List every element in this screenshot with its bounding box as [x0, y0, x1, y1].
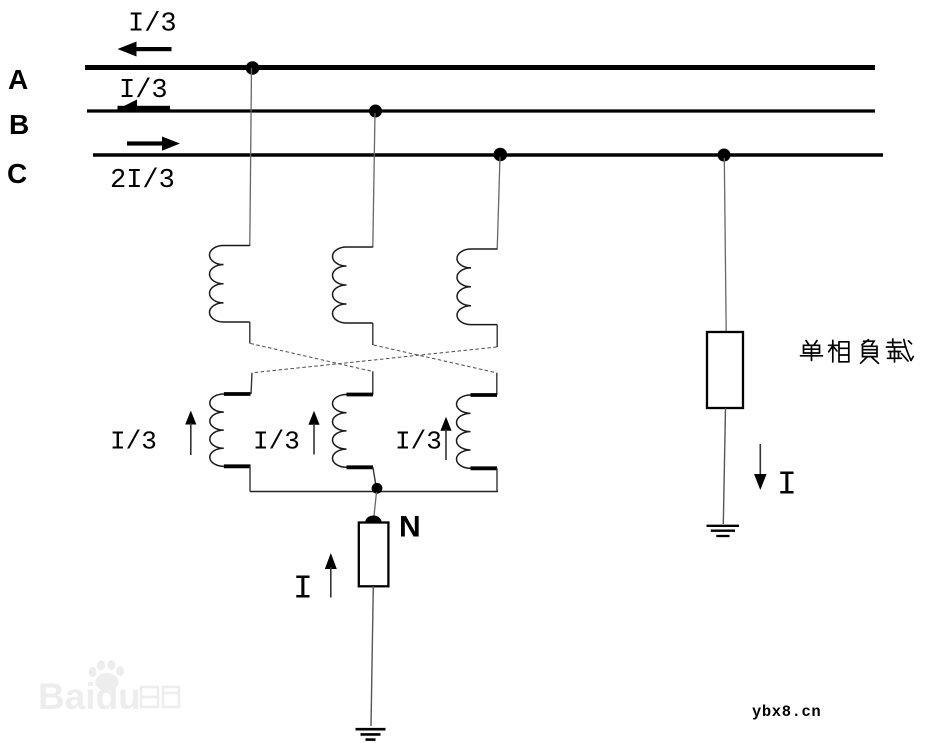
- ground (load): [707, 526, 740, 536]
- wire stub above lower winding 1: [251, 373, 252, 394]
- neutral bus wire: [250, 491, 498, 493]
- wire C to load resistor: [724, 158, 726, 332]
- neutral terminal blob: [365, 516, 381, 523]
- watermark Baidu Baike: [38, 660, 179, 717]
- svg-text:2I/3: 2I/3: [110, 166, 175, 196]
- svg-text:I/3: I/3: [110, 427, 157, 457]
- current arrow load (down): [754, 444, 767, 490]
- svg-text:A: A: [8, 64, 28, 95]
- svg-text:ybx8.cn: ybx8.cn: [752, 703, 821, 721]
- wire stub above lower winding 2: [372, 371, 374, 394]
- ground (neutral): [356, 729, 386, 739]
- zigzag cross wire upper2 to lower3: [374, 345, 497, 373]
- svg-text:I/3: I/3: [119, 76, 168, 106]
- wire stub above lower winding 3: [496, 373, 498, 395]
- wire load resistor to ground: [723, 408, 725, 524]
- wire stub below upper winding 3: [496, 325, 498, 347]
- current arrow phase C (right): [127, 137, 180, 151]
- zigzag cross wire upper1 to lower2: [251, 344, 373, 372]
- current arrow winding 3 (up): [440, 417, 451, 460]
- zigzag cross wire upper3 to lower1: [252, 347, 497, 373]
- wire A dropper: [250, 68, 252, 246]
- wire lower winding 1 to bus: [249, 466, 251, 491]
- wire stub below upper winding 2: [372, 323, 374, 345]
- wire C dropper: [497, 157, 500, 250]
- winding lower 3: [457, 395, 498, 468]
- current arrow winding 2 (up): [308, 411, 319, 455]
- phase line C: [93, 153, 883, 157]
- wire bus to neutral resistor: [374, 492, 377, 516]
- label single-phase load (hand-drawn CJK): [801, 339, 914, 363]
- svg-text:I/3: I/3: [128, 10, 177, 40]
- svg-text:I: I: [293, 571, 313, 608]
- svg-text:N: N: [399, 511, 421, 544]
- wire lower winding 2 to bus: [373, 467, 377, 489]
- junction dot on C (load tap): [718, 149, 731, 162]
- winding lower 2: [333, 395, 374, 468]
- wire B dropper: [373, 113, 375, 248]
- winding upper 2: [333, 247, 373, 323]
- current arrow winding 1 (up): [185, 411, 196, 456]
- wire resistor to ground (neutral): [371, 586, 373, 726]
- junction dot on B: [369, 105, 382, 118]
- svg-text:I: I: [777, 467, 797, 504]
- svg-text:I/3: I/3: [253, 427, 300, 457]
- phase line B: [87, 109, 875, 112]
- current arrow neutral (up): [325, 553, 337, 598]
- phase line A: [85, 65, 875, 70]
- winding lower 1: [210, 394, 251, 466]
- svg-text:C: C: [7, 158, 27, 189]
- current arrow phase A (left): [118, 42, 172, 57]
- svg-text:B: B: [9, 109, 29, 140]
- resistor (neutral grounding): [359, 523, 389, 587]
- wire lower winding 3 to bus: [496, 468, 498, 491]
- wire stub below upper winding 1: [249, 322, 251, 344]
- svg-text:Baidu: Baidu: [38, 676, 141, 717]
- resistor (single-phase load): [707, 332, 743, 408]
- current arrow phase B (left, on line): [115, 100, 170, 112]
- node N junction dot: [372, 483, 383, 494]
- winding upper 1: [209, 246, 249, 322]
- svg-text:I/3: I/3: [395, 427, 442, 457]
- winding upper 3: [457, 249, 497, 325]
- junction dot on C (left): [494, 148, 508, 162]
- junction dot on A: [246, 61, 260, 75]
